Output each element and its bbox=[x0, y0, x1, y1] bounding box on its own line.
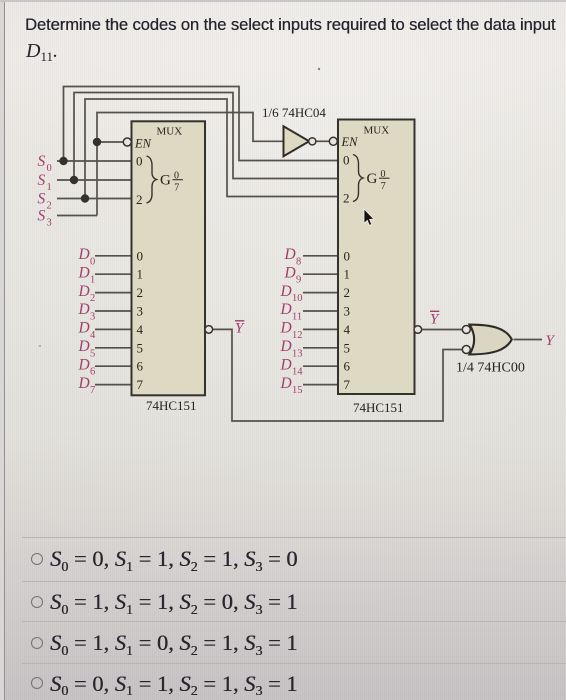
svg-text:EN: EN bbox=[134, 136, 152, 150]
svg-text:G: G bbox=[160, 173, 171, 189]
svg-text:9: 9 bbox=[296, 275, 301, 286]
svg-text:S: S bbox=[38, 153, 46, 170]
svg-text:1: 1 bbox=[137, 267, 144, 282]
svg-text:3: 3 bbox=[47, 218, 52, 229]
svg-text:2: 2 bbox=[47, 201, 52, 212]
svg-text:G: G bbox=[367, 171, 378, 187]
svg-text:0: 0 bbox=[137, 248, 144, 263]
svg-text:6: 6 bbox=[90, 367, 95, 378]
svg-text:5: 5 bbox=[137, 340, 144, 355]
svg-text:15: 15 bbox=[292, 385, 303, 396]
svg-text:4: 4 bbox=[344, 322, 351, 337]
svg-text:D: D bbox=[78, 320, 90, 337]
svg-text:2: 2 bbox=[344, 285, 351, 300]
svg-text:MUX: MUX bbox=[157, 126, 183, 138]
svg-text:D: D bbox=[280, 338, 292, 355]
svg-text:1/6 74HC04: 1/6 74HC04 bbox=[262, 105, 326, 120]
svg-text:0: 0 bbox=[344, 248, 351, 263]
svg-text:74HC151: 74HC151 bbox=[353, 400, 404, 415]
svg-text:0: 0 bbox=[90, 256, 95, 267]
svg-text:EN: EN bbox=[341, 135, 359, 149]
svg-text:2: 2 bbox=[343, 190, 350, 205]
svg-text:5: 5 bbox=[90, 348, 95, 359]
svg-text:3: 3 bbox=[137, 304, 144, 319]
svg-text:11: 11 bbox=[292, 312, 302, 323]
svg-text:2: 2 bbox=[137, 285, 144, 300]
svg-text:2: 2 bbox=[136, 192, 143, 207]
svg-text:0: 0 bbox=[136, 154, 143, 169]
svg-text:1/4 74HC00: 1/4 74HC00 bbox=[456, 361, 525, 376]
svg-text:7: 7 bbox=[90, 385, 95, 396]
svg-text:S: S bbox=[38, 172, 46, 189]
svg-text:D: D bbox=[280, 283, 292, 300]
svg-text:D: D bbox=[280, 375, 292, 392]
svg-text:D: D bbox=[284, 246, 296, 263]
svg-text:0: 0 bbox=[343, 153, 350, 168]
svg-text:D: D bbox=[78, 301, 90, 318]
svg-text:0: 0 bbox=[47, 163, 52, 174]
svg-text:D: D bbox=[78, 375, 90, 392]
svg-text:D: D bbox=[280, 301, 292, 318]
svg-text:7: 7 bbox=[381, 181, 386, 192]
svg-text:Y: Y bbox=[546, 333, 556, 349]
svg-text:0: 0 bbox=[174, 170, 179, 181]
svg-text:10: 10 bbox=[292, 293, 303, 304]
svg-text:2: 2 bbox=[90, 293, 95, 304]
svg-text:MUX: MUX bbox=[364, 124, 390, 136]
svg-text:D: D bbox=[78, 356, 90, 373]
svg-text:1: 1 bbox=[90, 275, 95, 286]
svg-text:0: 0 bbox=[381, 169, 386, 180]
svg-text:74HC151: 74HC151 bbox=[146, 398, 197, 413]
svg-text:D: D bbox=[284, 264, 296, 281]
svg-text:D: D bbox=[78, 264, 90, 281]
svg-text:3: 3 bbox=[90, 312, 95, 323]
svg-text:5: 5 bbox=[344, 340, 351, 355]
svg-text:1: 1 bbox=[344, 267, 351, 282]
svg-text:Y: Y bbox=[430, 312, 440, 328]
svg-text:Y: Y bbox=[235, 321, 245, 337]
svg-text:7: 7 bbox=[137, 377, 144, 392]
svg-text:1: 1 bbox=[47, 182, 52, 193]
svg-text:14: 14 bbox=[292, 367, 303, 378]
svg-text:3: 3 bbox=[344, 304, 351, 319]
svg-text:D: D bbox=[78, 246, 90, 263]
svg-text:D: D bbox=[78, 283, 90, 300]
svg-text:7: 7 bbox=[174, 182, 179, 193]
svg-text:6: 6 bbox=[137, 359, 144, 374]
svg-text:6: 6 bbox=[344, 359, 351, 374]
svg-text:D: D bbox=[78, 338, 90, 355]
svg-text:S: S bbox=[38, 208, 46, 225]
svg-text:D: D bbox=[280, 356, 292, 373]
svg-text:D: D bbox=[280, 320, 292, 337]
svg-text:7: 7 bbox=[344, 377, 351, 392]
svg-text:8: 8 bbox=[296, 256, 301, 267]
svg-text:S: S bbox=[38, 191, 46, 208]
svg-text:4: 4 bbox=[137, 322, 144, 337]
svg-text:13: 13 bbox=[292, 348, 303, 359]
svg-text:12: 12 bbox=[292, 330, 303, 341]
svg-text:4: 4 bbox=[90, 330, 96, 341]
